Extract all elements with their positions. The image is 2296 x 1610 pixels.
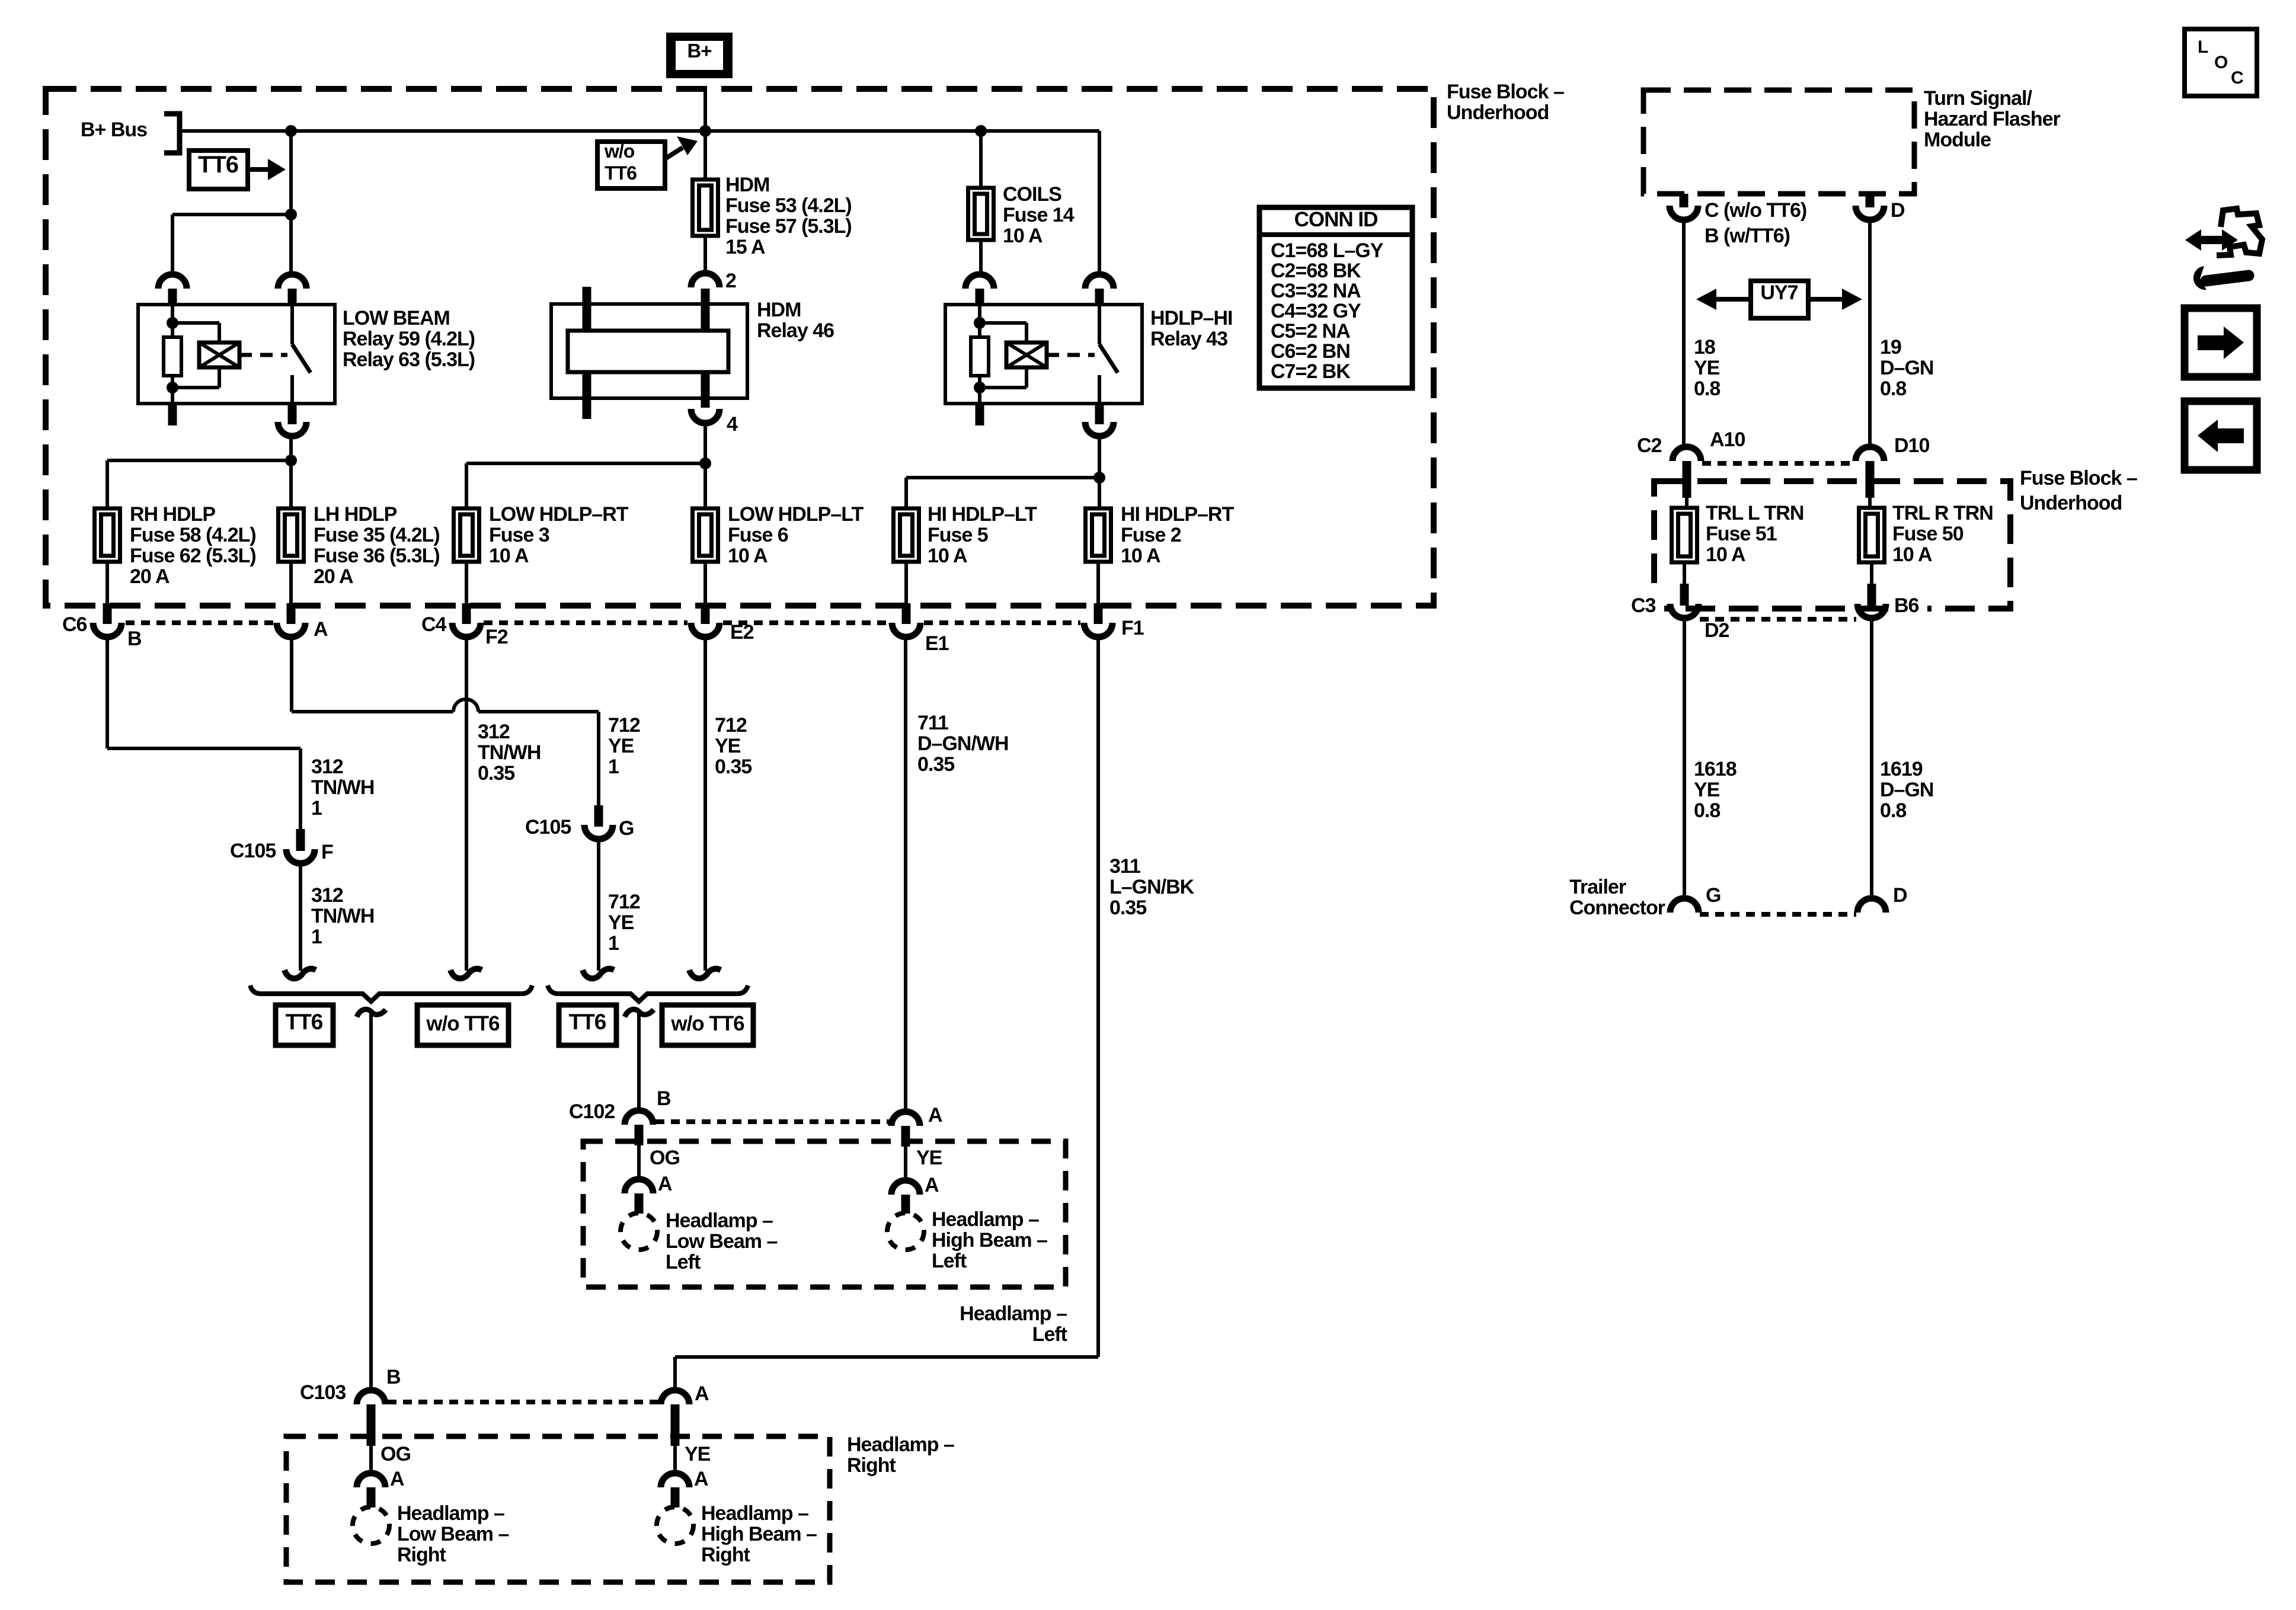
wire to C102-B (637, 1012, 641, 1110)
svg-text:Module: Module (1924, 129, 1991, 151)
TT6 box lower right (559, 1005, 616, 1045)
TT6 tag box (189, 151, 248, 189)
back arrow icon box (2185, 401, 2257, 470)
wire COILS fuse to relay (979, 240, 983, 274)
svg-text:D–GN: D–GN (1880, 357, 1933, 379)
svg-text:C4: C4 (421, 613, 447, 636)
svg-text:UY7: UY7 (1760, 281, 1798, 304)
svg-text:L–GN/BK: L–GN/BK (1109, 876, 1195, 898)
wire to HI HDLP-LT fuse (906, 476, 1099, 479)
svg-text:B+: B+ (687, 40, 711, 62)
svg-text:Right: Right (397, 1544, 446, 1566)
relay switch feed cup (1085, 274, 1114, 289)
svg-text:YE: YE (715, 735, 741, 757)
svg-text:B (w/TT6): B (w/TT6) (1705, 225, 1790, 247)
fuse block underhood right dashed box (1654, 481, 2010, 609)
svg-text:Fuse 2: Fuse 2 (1121, 524, 1181, 546)
wire low beam output (289, 436, 293, 460)
svg-text:LOW HDLP–LT: LOW HDLP–LT (728, 503, 864, 526)
svg-text:1: 1 (608, 932, 619, 955)
svg-text:YE: YE (1694, 779, 1720, 801)
svg-text:F2: F2 (485, 626, 508, 648)
svg-text:0.8: 0.8 (1694, 377, 1720, 400)
svg-text:LOW BEAM: LOW BEAM (343, 307, 450, 329)
wire C105-G down (597, 839, 600, 971)
fuse COILS Fuse 14 (968, 188, 994, 240)
svg-text:B: B (386, 1366, 401, 1388)
relay switch (290, 305, 294, 344)
svg-text:2: 2 (725, 270, 736, 292)
svg-text:RH HDLP: RH HDLP (130, 503, 215, 526)
TT6 box lower left (276, 1005, 333, 1045)
svg-text:C103: C103 (300, 1381, 346, 1404)
svg-text:Fuse 57 (5.3L): Fuse 57 (5.3L) (725, 215, 852, 238)
connector C105 F (296, 829, 305, 851)
svg-text:10 A: 10 A (728, 545, 768, 567)
svg-text:w/o TT6: w/o TT6 (426, 1012, 500, 1035)
svg-text:A: A (658, 1173, 672, 1195)
wire C6-B to C105-F (105, 636, 109, 748)
svg-text:TN/WH: TN/WH (311, 776, 374, 799)
svg-text:0.8: 0.8 (1880, 799, 1906, 822)
svg-text:0.35: 0.35 (715, 756, 752, 778)
connector C103 dotted line (388, 1400, 658, 1404)
svg-text:YE: YE (608, 911, 634, 934)
svg-text:712: 712 (715, 714, 747, 737)
svg-text:HDLP–HI: HDLP–HI (1150, 307, 1232, 329)
svg-text:HI HDLP–LT: HI HDLP–LT (928, 503, 1037, 526)
svg-text:Fuse 62 (5.3L): Fuse 62 (5.3L) (130, 545, 256, 567)
wire HDM relay output (703, 423, 707, 508)
B+ Bus bracket (164, 114, 180, 153)
svg-text:w/o TT6: w/o TT6 (670, 1012, 744, 1035)
connector C102 dotted line (655, 1119, 889, 1124)
turn signal hazard flasher module dashed box (1643, 90, 1914, 194)
connector pin F1 cup (1096, 562, 1100, 604)
svg-text:D–GN: D–GN (1880, 779, 1933, 801)
headlamp left dashed box (583, 1141, 1066, 1287)
svg-text:A: A (314, 618, 328, 641)
fuse block underhood dashed box (46, 89, 1434, 606)
svg-text:G: G (1706, 884, 1721, 907)
bulb headlamp low beam right (353, 1507, 389, 1544)
CONN ID table (1259, 207, 1412, 388)
svg-text:Headlamp –: Headlamp – (701, 1502, 808, 1525)
svg-text:1: 1 (608, 756, 619, 778)
svg-text:0.35: 0.35 (917, 753, 954, 776)
svg-text:Low Beam –: Low Beam – (397, 1523, 509, 1545)
svg-text:10 A: 10 A (1121, 545, 1160, 567)
svg-text:D–GN/WH: D–GN/WH (917, 732, 1009, 755)
svg-text:HI HDLP–RT: HI HDLP–RT (1121, 503, 1234, 526)
relay box (945, 305, 1142, 404)
svg-text:C6=2 BN: C6=2 BN (1271, 340, 1350, 363)
node bus junction 2 (699, 125, 711, 137)
svg-text:A: A (925, 1174, 939, 1196)
svg-text:Relay 46: Relay 46 (757, 319, 834, 342)
repair tools icon (2200, 236, 2224, 244)
svg-text:LOW HDLP–RT: LOW HDLP–RT (489, 503, 629, 526)
wire C105-F down (299, 863, 302, 971)
svg-text:C105: C105 (230, 840, 276, 862)
svg-text:Fuse 50: Fuse 50 (1892, 523, 1964, 545)
relay coil circuit (978, 305, 981, 337)
svg-text:Fuse Block –: Fuse Block – (2020, 467, 2137, 489)
wire 19 D-GN (1868, 220, 1872, 447)
wire bus to HDLP-HI switch (1098, 131, 1101, 274)
fuse RH HDLP Fuse 58/62 (95, 508, 120, 562)
svg-text:A: A (694, 1468, 708, 1490)
svg-text:TRL R TRN: TRL R TRN (1892, 502, 1993, 524)
relay coil feed cup (965, 274, 994, 289)
svg-text:E1: E1 (925, 632, 949, 655)
bulb headlamp low beam left (621, 1213, 657, 1250)
module pin C cup (1680, 194, 1689, 207)
svg-text:C102: C102 (569, 1100, 615, 1123)
relay actuator dashed link (239, 353, 287, 357)
bulb connector A high beam left (891, 1180, 920, 1195)
svg-text:Left: Left (666, 1251, 701, 1273)
connector pin 4 cup (691, 409, 720, 423)
svg-text:Headlamp –: Headlamp – (960, 1302, 1067, 1325)
svg-text:OG: OG (650, 1147, 680, 1169)
svg-text:Turn Signal/: Turn Signal/ (1924, 87, 2032, 110)
svg-text:HDM: HDM (757, 299, 801, 321)
svg-text:Low Beam –: Low Beam – (666, 1230, 777, 1253)
svg-text:15 A: 15 A (725, 236, 765, 258)
connector pin E2 cup (703, 562, 707, 604)
svg-text:YE: YE (608, 735, 634, 757)
fuse LH HDLP Fuse 35/36 (279, 508, 304, 562)
svg-text:0.35: 0.35 (478, 762, 514, 785)
svg-text:Fuse 3: Fuse 3 (489, 524, 549, 546)
connector row dotted line (126, 620, 274, 625)
svg-text:G: G (619, 817, 634, 840)
wire HDLP-HI output (1098, 436, 1101, 508)
svg-text:1618: 1618 (1694, 758, 1737, 780)
svg-text:Underhood: Underhood (2020, 492, 2122, 514)
svg-text:Fuse 14: Fuse 14 (1003, 204, 1075, 226)
svg-text:Fuse Block –: Fuse Block – (1447, 81, 1564, 103)
svg-text:F1: F1 (1121, 617, 1144, 639)
LOC icon box (2185, 29, 2257, 96)
fuse TRL L TRN Fuse 51 (1672, 508, 1697, 562)
wire end squiggle 3 (450, 969, 482, 978)
svg-text:312: 312 (311, 884, 343, 907)
svg-text:Left: Left (1032, 1323, 1067, 1346)
svg-text:Underhood: Underhood (1447, 101, 1549, 124)
brace TT6 / w-o TT6 right (548, 985, 748, 1001)
svg-text:Relay 43: Relay 43 (1150, 328, 1227, 350)
svg-text:C7=2 BK: C7=2 BK (1271, 360, 1351, 383)
wire to LH HDLP fuse (289, 460, 293, 508)
node bus junction 1 (285, 125, 297, 137)
w/o TT6 tag box (597, 142, 665, 188)
hook output right (625, 1009, 654, 1017)
bulb connector A high beam right (661, 1473, 689, 1487)
TT6 arrow (248, 167, 268, 172)
svg-text:10 A: 10 A (1892, 543, 1932, 566)
svg-text:High Beam –: High Beam – (932, 1229, 1047, 1251)
relay HDM pins (583, 287, 591, 332)
bulb headlamp high beam left (887, 1213, 924, 1250)
svg-text:TT6: TT6 (286, 1010, 323, 1034)
svg-text:C2: C2 (1637, 434, 1662, 457)
svg-text:TT6: TT6 (569, 1010, 606, 1034)
wire HDM fuse to pin 2 (703, 236, 707, 273)
svg-text:311: 311 (1109, 855, 1140, 878)
svg-text:0.8: 0.8 (1694, 799, 1720, 822)
connector C4 pin F2 cup (465, 562, 468, 604)
fuse LOW HDLP-LT Fuse 6 (693, 508, 718, 562)
w/o TT6 box lower right (662, 1005, 753, 1045)
svg-text:19: 19 (1880, 336, 1901, 359)
svg-text:A: A (928, 1104, 942, 1126)
wire to RH HDLP fuse (107, 459, 291, 462)
fuse HI HDLP-LT Fuse 5 (894, 508, 919, 562)
wire into TRL R fuse (1868, 498, 1872, 508)
relay coil feed cup (158, 274, 187, 289)
svg-text:Headlamp –: Headlamp – (932, 1208, 1039, 1231)
relay HDM Relay 46 box (551, 304, 747, 398)
svg-text:C6: C6 (62, 613, 87, 636)
svg-text:TRL L TRN: TRL L TRN (1706, 502, 1803, 524)
node bus junction 3 (975, 125, 987, 137)
svg-text:10 A: 10 A (928, 545, 967, 567)
svg-text:C5=2 NA: C5=2 NA (1271, 320, 1350, 343)
trailer connector D (1857, 898, 1886, 913)
connector D10 (1856, 447, 1884, 461)
bulb connector A low beam right (357, 1473, 385, 1487)
w/o TT6 box lower left (417, 1005, 509, 1045)
module pin D cup (1866, 194, 1875, 207)
svg-text:C4=32 GY: C4=32 GY (1271, 300, 1361, 322)
svg-text:Headlamp –: Headlamp – (666, 1209, 773, 1232)
svg-text:YE: YE (1694, 357, 1720, 379)
svg-text:C3: C3 (1631, 594, 1656, 617)
wire end squiggle 4 (689, 969, 721, 978)
wire bus to low beam relay (289, 131, 293, 274)
svg-text:1: 1 (311, 926, 322, 948)
svg-text:10 A: 10 A (1003, 225, 1043, 247)
svg-text:1: 1 (311, 797, 322, 820)
wire A to C105-G (290, 636, 293, 712)
svg-text:C3=32 NA: C3=32 NA (1271, 280, 1361, 302)
svg-text:D2: D2 (1705, 619, 1729, 642)
svg-text:A: A (390, 1468, 404, 1490)
svg-text:18: 18 (1694, 336, 1715, 359)
svg-text:20 A: 20 A (314, 565, 353, 588)
w/o TT6 arrow (665, 148, 683, 159)
connector pin E1 cup (904, 562, 908, 604)
svg-text:712: 712 (608, 714, 640, 737)
svg-text:10 A: 10 A (489, 545, 529, 567)
svg-text:Headlamp –: Headlamp – (847, 1433, 954, 1456)
svg-text:B6: B6 (1894, 594, 1919, 617)
fuse LOW HDLP-RT Fuse 3 (454, 508, 479, 562)
wire 1618 YE (1683, 618, 1686, 898)
wire E2 down (703, 636, 707, 971)
wire C4-F2 down (465, 636, 468, 971)
svg-text:Right: Right (701, 1544, 750, 1566)
svg-text:TT6: TT6 (198, 152, 238, 178)
svg-text:712: 712 (608, 891, 640, 913)
connector C102 B (625, 1110, 653, 1125)
svg-text:D: D (1891, 199, 1905, 222)
fuse HDM Fuse 53/57 (703, 131, 707, 180)
svg-text:w/o: w/o (604, 140, 635, 162)
svg-text:B: B (127, 628, 142, 650)
svg-text:F: F (321, 841, 333, 863)
battery feed B+ symbol (666, 33, 733, 78)
svg-text:Headlamp –: Headlamp – (397, 1502, 504, 1525)
svg-text:Trailer: Trailer (1569, 876, 1626, 898)
svg-text:TT6: TT6 (605, 162, 637, 184)
connector C3 D2 (1683, 562, 1686, 585)
svg-text:4: 4 (727, 413, 738, 436)
wire E1 to C102-A (904, 636, 907, 1112)
relay box (138, 305, 335, 404)
svg-text:312: 312 (478, 721, 510, 743)
svg-text:D: D (1893, 884, 1907, 907)
svg-text:0.8: 0.8 (1880, 377, 1906, 400)
connector C102 A (891, 1112, 920, 1126)
svg-text:10 A: 10 A (1706, 543, 1745, 566)
wire end squiggle 2 (583, 969, 614, 978)
wire 1619 D-GN (1870, 618, 1873, 898)
brace TT6 / w-o TT6 left (250, 985, 532, 1001)
wire to C103-B (369, 1012, 373, 1391)
connector pin 2 cup (691, 273, 720, 287)
svg-text:Fuse 36 (5.3L): Fuse 36 (5.3L) (314, 545, 440, 567)
svg-text:E2: E2 (730, 621, 754, 644)
connector B6 (1870, 562, 1873, 585)
svg-text:B: B (657, 1087, 671, 1110)
svg-text:B+ Bus: B+ Bus (81, 119, 147, 141)
svg-text:D10: D10 (1894, 434, 1929, 457)
svg-text:Fuse 35 (4.2L): Fuse 35 (4.2L) (314, 524, 440, 546)
connector C103 A (661, 1390, 689, 1404)
svg-text:COILS: COILS (1003, 183, 1061, 206)
svg-text:A: A (695, 1382, 709, 1405)
svg-text:711: 711 (917, 712, 948, 734)
svg-text:Fuse 51: Fuse 51 (1706, 523, 1777, 545)
svg-text:Connector: Connector (1569, 897, 1665, 919)
UY7 tag box (1751, 281, 1808, 318)
relay switch output cup (288, 404, 297, 424)
svg-text:CONN ID: CONN ID (1294, 208, 1378, 231)
svg-text:Fuse 6: Fuse 6 (728, 524, 788, 546)
svg-text:C: C (2231, 68, 2243, 88)
svg-text:Right: Right (847, 1454, 896, 1477)
svg-text:C (w/o TT6): C (w/o TT6) (1705, 199, 1806, 222)
svg-text:LH HDLP: LH HDLP (314, 503, 397, 526)
fuse HI HDLP-RT Fuse 2 (1086, 508, 1111, 562)
svg-text:OG: OG (380, 1443, 411, 1465)
bulb headlamp high beam right (657, 1507, 693, 1544)
svg-text:Fuse 5: Fuse 5 (928, 524, 988, 546)
relay coil circuit (171, 305, 174, 337)
forward arrow icon box (2185, 308, 2257, 377)
svg-text:20 A: 20 A (130, 565, 170, 588)
svg-text:0.35: 0.35 (1109, 897, 1146, 919)
wire end squiggle 1 (284, 969, 316, 978)
wire to LOW HDLP-RT fuse (466, 462, 705, 465)
svg-text:312: 312 (311, 756, 343, 778)
fuse TRL R TRN Fuse 50 (1859, 508, 1885, 562)
svg-text:Fuse 58 (4.2L): Fuse 58 (4.2L) (130, 524, 256, 546)
connector C6 pin B cup (105, 562, 109, 604)
svg-text:Relay 59 (4.2L): Relay 59 (4.2L) (343, 328, 475, 350)
wire 18 YE (1682, 220, 1686, 447)
svg-text:TN/WH: TN/WH (478, 741, 541, 764)
svg-text:Relay 63 (5.3L): Relay 63 (5.3L) (343, 348, 475, 371)
relay actuator dashed link (1047, 353, 1095, 357)
UY7 arrows (1716, 297, 1751, 302)
headlamp right dashed box (286, 1436, 830, 1582)
wire F1 311 L-GN/BK (1096, 636, 1100, 1357)
relay switch (1098, 305, 1101, 344)
svg-text:YE: YE (685, 1443, 711, 1465)
wire bus to COILS fuse (979, 131, 983, 188)
svg-text:HDM: HDM (725, 174, 769, 196)
svg-text:C1=68 L–GY: C1=68 L–GY (1271, 239, 1384, 262)
hook output left (357, 1009, 386, 1017)
svg-text:O: O (2214, 53, 2228, 72)
wire B+ bus horizontal (180, 129, 1099, 133)
svg-text:L: L (2198, 37, 2208, 57)
svg-text:C2=68 BK: C2=68 BK (1271, 260, 1361, 282)
relay coil ground stub (168, 404, 177, 425)
relay switch output cup (1095, 404, 1104, 424)
connector C105 G (594, 805, 603, 827)
relay switch feed cup (278, 274, 306, 289)
trailer connector G (1670, 898, 1699, 913)
bulb connector A low beam left (625, 1179, 653, 1193)
svg-text:TN/WH: TN/WH (311, 905, 374, 927)
trailer dotted line (1700, 912, 1856, 917)
svg-text:Left: Left (932, 1250, 967, 1272)
svg-text:1619: 1619 (1880, 758, 1923, 780)
svg-text:High Beam –: High Beam – (701, 1523, 817, 1545)
connector pin A cup (289, 562, 293, 604)
svg-text:Hazard Flasher: Hazard Flasher (1924, 108, 2061, 130)
connector C2 A10 (1673, 447, 1701, 461)
connector C2 dotted line (1702, 461, 1854, 466)
svg-text:A10: A10 (1710, 428, 1745, 451)
wire into TRL L fuse (1685, 498, 1689, 508)
svg-text:C105: C105 (525, 816, 571, 838)
svg-text:Fuse 53 (4.2L): Fuse 53 (4.2L) (725, 194, 852, 217)
connector C3 dotted line (1700, 617, 1856, 622)
wire B+ drop (703, 89, 707, 131)
connector C103 B (357, 1390, 385, 1404)
relay coil ground stub (976, 404, 984, 425)
svg-text:YE: YE (916, 1147, 942, 1169)
